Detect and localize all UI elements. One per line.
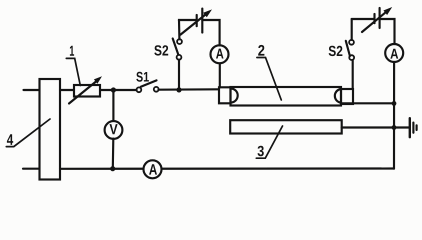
wire A1 to tube cap: [219, 63, 221, 87]
wire bottom rail: [60, 167, 394, 169]
power unit box 4: [40, 79, 61, 180]
label 1 leader: [66, 58, 80, 85]
node junction V branch top: [111, 87, 116, 92]
switch S2 right: [349, 55, 354, 60]
ammeter A2: [385, 44, 403, 62]
wire S2-right branch lower: [352, 60, 354, 89]
wire left bottom stub: [23, 168, 39, 170]
voltmeter V: [105, 121, 123, 139]
label 4 leader: [6, 119, 50, 147]
ground lead: [394, 126, 409, 128]
wire battery-left left lead: [179, 20, 197, 21]
battery B2 arrow: [362, 10, 389, 32]
label S2 (right): [329, 46, 343, 56]
battery B2 long plate: [379, 8, 381, 28]
tube 2 left electrode: [231, 89, 238, 103]
label 3: [258, 146, 264, 157]
ammeter A1 letter A: [216, 49, 224, 59]
wire right rail: [393, 62, 395, 169]
label S1: [136, 72, 149, 82]
battery B1 long plate: [201, 9, 203, 33]
wire battery-left right lead: [202, 20, 219, 45]
battery B1 short plate: [196, 15, 198, 26]
tube 2 left cap: [219, 87, 231, 103]
tube 2 right cap: [341, 89, 353, 104]
wire S1 to S2 junction: [159, 88, 220, 91]
label 2: [258, 45, 264, 56]
switch S2 left: [177, 55, 182, 60]
wire top rail: [60, 89, 137, 91]
node junction S2-left branch: [176, 87, 181, 92]
node junction ground: [392, 125, 397, 130]
wire tube 2 output: [341, 102, 394, 104]
switch S1: [137, 87, 142, 92]
wire battery-right right lead: [380, 19, 395, 44]
node junction V branch bottom: [110, 166, 115, 171]
plate 3: [230, 120, 342, 133]
ground bar 3: [416, 125, 418, 130]
tube 2 right electrode: [335, 89, 341, 103]
resistor R1 (variable, label 1): [74, 85, 100, 97]
ammeter A3: [144, 160, 162, 178]
wire plate 3 output: [342, 126, 394, 128]
wire S2-right upper: [351, 19, 353, 40]
wire V branch lower: [112, 139, 115, 169]
voltmeter letter V: [110, 124, 118, 134]
wire V branch upper: [112, 90, 114, 122]
battery B1 arrow: [181, 12, 209, 34]
label 4: [7, 134, 13, 145]
wire S2-left upper: [178, 20, 181, 39]
label 1: [70, 46, 74, 56]
label S2 (left): [154, 45, 168, 55]
ground bar 2: [412, 123, 414, 133]
ammeter A2 letter A: [390, 49, 398, 59]
ground bar 1: [409, 118, 411, 137]
ammeter A1: [211, 45, 229, 63]
tube 2 envelope: [231, 87, 342, 106]
label 3 leader: [256, 126, 282, 158]
wire S2-left lower: [178, 60, 180, 90]
battery B2 short plate: [373, 14, 375, 23]
ammeter A3 letter A: [149, 164, 157, 174]
wire battery-right left lead: [352, 18, 375, 20]
wire left top stub: [24, 89, 40, 91]
node junction tube2-rail: [392, 101, 397, 106]
label 2 leader: [257, 58, 281, 101]
